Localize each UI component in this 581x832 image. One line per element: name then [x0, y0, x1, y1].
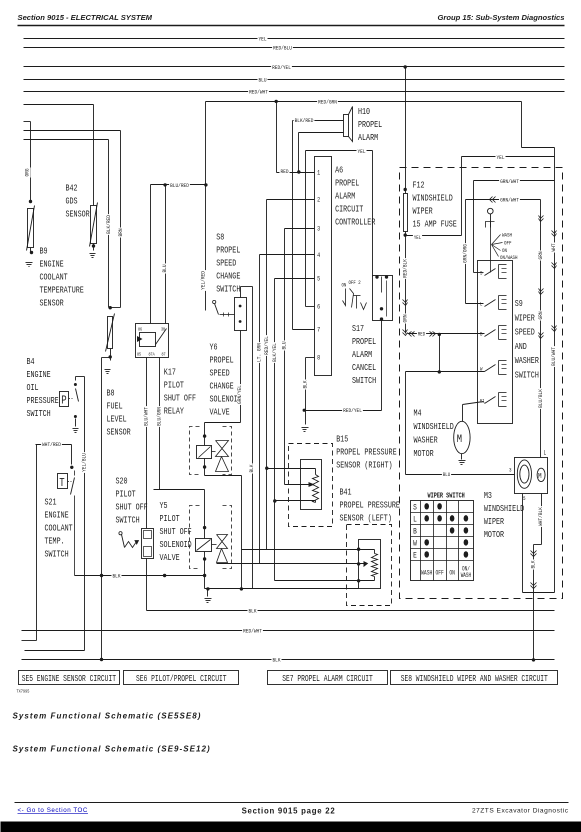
svg-text:5: 5 [317, 275, 320, 283]
svg-text:SWITCH: SWITCH [216, 285, 240, 295]
svg-text:PROPEL: PROPEL [358, 120, 382, 130]
svg-text:System Functional Schematic (S: System Functional Schematic (SE5SE8) [13, 712, 202, 721]
svg-text:BLK/YEL: BLK/YEL [271, 343, 278, 362]
svg-text:WHT/RED: WHT/RED [42, 442, 61, 449]
svg-text:87: 87 [162, 353, 167, 358]
svg-text:B42: B42 [66, 184, 78, 194]
svg-text:A6: A6 [335, 166, 343, 176]
svg-text:RED: RED [280, 169, 288, 176]
svg-text:SHUT OFF: SHUT OFF [164, 394, 196, 404]
svg-text:GDS: GDS [66, 197, 78, 207]
svg-text:BLK: BLK [248, 608, 257, 615]
svg-text:ALARM: ALARM [352, 350, 372, 360]
svg-text:K17: K17 [164, 368, 176, 378]
svg-text:RED/WHT: RED/WHT [249, 89, 268, 96]
svg-text:85: 85 [137, 353, 142, 358]
svg-text:YEL: YEL [258, 36, 266, 43]
svg-text:ALARM: ALARM [335, 192, 355, 202]
svg-text:BLU: BLU [162, 264, 169, 272]
svg-text:15 AMP FUSE: 15 AMP FUSE [413, 220, 457, 230]
svg-text:B: B [480, 331, 482, 338]
svg-text:MOTOR: MOTOR [414, 449, 434, 459]
svg-text:S: S [413, 504, 417, 513]
svg-text:BLK: BLK [302, 380, 309, 389]
svg-text:SPEED: SPEED [210, 369, 230, 379]
svg-text:WIPER SWITCH: WIPER SWITCH [428, 492, 465, 500]
svg-text:LEVEL: LEVEL [107, 415, 127, 425]
svg-text:L: L [480, 301, 482, 308]
svg-text:B9: B9 [40, 247, 48, 257]
svg-text:TEMPERATURE: TEMPERATURE [40, 286, 84, 296]
svg-text:SPEED: SPEED [515, 328, 535, 338]
svg-text:BLK/RED: BLK/RED [295, 118, 314, 125]
svg-text:5: 5 [523, 495, 526, 502]
svg-text:RED/BLU: RED/BLU [273, 45, 292, 52]
svg-text:SWITCH: SWITCH [515, 371, 539, 381]
svg-text:VALVE: VALVE [160, 553, 180, 563]
svg-text:B8: B8 [107, 389, 115, 399]
svg-text:BRN: BRN [118, 228, 125, 236]
svg-text:BLK: BLK [249, 464, 256, 473]
svg-text:SE8 WINDSHIELD WIPER AND WASHE: SE8 WINDSHIELD WIPER AND WASHER CIRCUIT [401, 675, 548, 684]
svg-text:BLU: BLU [443, 472, 450, 479]
svg-text:OFF 2: OFF 2 [349, 279, 361, 286]
svg-text:PROPEL: PROPEL [335, 179, 359, 189]
svg-text:WIPER: WIPER [413, 207, 433, 217]
svg-text:YEL/RED: YEL/RED [200, 271, 207, 290]
svg-text:OIL: OIL [27, 383, 39, 393]
svg-text:86: 86 [138, 328, 143, 333]
svg-text:7: 7 [317, 326, 320, 334]
svg-text:WINDSHIELD: WINDSHIELD [413, 194, 453, 204]
svg-text:SWITCH: SWITCH [45, 550, 69, 560]
svg-text:RELAY: RELAY [164, 407, 184, 417]
svg-text:ENGINE: ENGINE [40, 260, 64, 270]
svg-text:RED/YEL: RED/YEL [263, 336, 270, 355]
svg-text:BLU: BLU [258, 77, 266, 84]
svg-text:SE5 ENGINE SENSOR CIRCUIT: SE5 ENGINE SENSOR CIRCUIT [22, 675, 117, 684]
svg-text:TEMP.: TEMP. [45, 537, 65, 547]
svg-text:WASH: WASH [421, 569, 432, 577]
svg-text:BLU: BLU [281, 341, 288, 349]
svg-text:SHUT OFF: SHUT OFF [160, 527, 192, 537]
svg-text:RED/YEL: RED/YEL [272, 65, 291, 72]
svg-text:SENSOR (RIGHT): SENSOR (RIGHT) [336, 461, 392, 471]
svg-text:WIPER: WIPER [515, 313, 535, 323]
svg-text:S20: S20 [116, 477, 128, 487]
svg-text:SWITCH: SWITCH [116, 516, 140, 526]
svg-text:OFF: OFF [435, 569, 444, 577]
svg-text:CHANGE: CHANGE [216, 272, 240, 282]
svg-text:S: S [480, 270, 482, 277]
svg-text:PILOT: PILOT [160, 514, 180, 524]
svg-text:PILOT: PILOT [116, 490, 136, 500]
svg-text:WASH: WASH [461, 572, 471, 579]
svg-text:E: E [413, 552, 417, 561]
svg-text:COOLANT: COOLANT [40, 273, 68, 283]
svg-text:27ZTS Excavator Diagnostic: 27ZTS Excavator Diagnostic [472, 808, 569, 815]
svg-text:SENSOR: SENSOR [40, 299, 64, 309]
svg-text:RED: RED [418, 331, 425, 338]
svg-text:Section 9015 page 22: Section 9015 page 22 [242, 807, 336, 816]
svg-text:Section 9015 - ELECTRICAL SYST: Section 9015 - ELECTRICAL SYSTEM [18, 13, 153, 22]
svg-text:B4: B4 [27, 357, 35, 367]
svg-text:F12: F12 [413, 181, 425, 191]
svg-text:ENGINE: ENGINE [27, 370, 51, 380]
svg-text:GRN/ORG: GRN/ORG [462, 244, 469, 263]
svg-text:TX7995: TX7995 [17, 689, 30, 695]
svg-text:L: L [413, 516, 417, 525]
svg-text:ON: ON [502, 247, 507, 254]
svg-text:PILOT: PILOT [164, 381, 184, 391]
svg-text:GRN: GRN [538, 311, 545, 319]
svg-text:COOLANT: COOLANT [45, 524, 73, 534]
svg-text:BLK/RED: BLK/RED [106, 215, 113, 234]
svg-text:YEL/BLU: YEL/BLU [81, 453, 88, 472]
svg-text:Y6: Y6 [210, 343, 218, 353]
svg-text:P: P [61, 394, 66, 408]
svg-text:B41: B41 [340, 488, 352, 498]
svg-text:RED/YEL: RED/YEL [343, 408, 362, 415]
svg-text:CANCEL: CANCEL [352, 363, 376, 373]
svg-text:PROPEL: PROPEL [210, 356, 234, 366]
svg-text:M: M [538, 473, 542, 482]
svg-text:M4: M4 [414, 409, 422, 419]
svg-text:OFF: OFF [504, 240, 512, 247]
svg-text:BLK: BLK [112, 573, 121, 580]
svg-text:SOLENOID: SOLENOID [160, 540, 192, 550]
svg-text:3: 3 [509, 467, 512, 474]
svg-text:ORG: ORG [24, 168, 31, 176]
svg-text:WIPER: WIPER [484, 517, 504, 527]
svg-text:B: B [413, 528, 417, 537]
svg-text:SENSOR (LEFT): SENSOR (LEFT) [340, 514, 392, 524]
svg-text:6: 6 [317, 303, 320, 311]
svg-text:M3: M3 [484, 491, 492, 501]
svg-text:Y5: Y5 [160, 501, 168, 511]
svg-text:BLK: BLK [272, 657, 281, 664]
svg-text:RED/WHT: RED/WHT [243, 628, 262, 635]
svg-text:GRN: GRN [538, 251, 545, 259]
svg-text:BLU/WHT: BLU/WHT [551, 347, 558, 366]
svg-text:CONTROLLER: CONTROLLER [335, 218, 375, 228]
svg-text:GRN/WHT: GRN/WHT [500, 197, 519, 204]
svg-text:WASHER: WASHER [515, 356, 539, 366]
svg-text:E1: E1 [480, 398, 485, 405]
svg-text:System Functional Schematic (S: System Functional Schematic (SE9-SE12) [13, 745, 211, 754]
svg-text:GRN: GRN [402, 314, 409, 322]
svg-text:PROPEL: PROPEL [216, 246, 240, 256]
svg-text:30: 30 [161, 328, 166, 333]
svg-text:ON: ON [342, 282, 347, 289]
svg-text:L: L [544, 450, 547, 457]
svg-text:PRESSURE: PRESSURE [27, 396, 59, 406]
svg-text:B15: B15 [336, 435, 348, 445]
svg-text:CIRCUIT: CIRCUIT [335, 205, 363, 215]
svg-text:WASHER: WASHER [414, 436, 438, 446]
svg-text:1: 1 [317, 169, 320, 177]
svg-text:WINDSHIELD: WINDSHIELD [484, 504, 524, 514]
svg-text:BLU/BLK: BLU/BLK [538, 388, 545, 408]
svg-text:8: 8 [317, 354, 320, 362]
svg-text:PROPEL PRESSURE: PROPEL PRESSURE [340, 501, 401, 511]
svg-text:BLU/RED: BLU/RED [170, 182, 189, 189]
svg-text:GRN/WHT: GRN/WHT [500, 179, 519, 186]
svg-text:SPEED: SPEED [216, 259, 236, 269]
svg-text:BLU/WHT: BLU/WHT [143, 407, 150, 426]
svg-text:BLK: BLK [530, 560, 537, 569]
svg-text:ALARM: ALARM [358, 133, 378, 143]
svg-text:4: 4 [317, 251, 320, 259]
svg-text:SE6 PILOT/PROPEL CIRCUIT: SE6 PILOT/PROPEL CIRCUIT [136, 675, 227, 684]
svg-text:WASH: WASH [502, 232, 512, 239]
svg-text:3: 3 [317, 225, 320, 233]
svg-text:M: M [457, 433, 462, 445]
svg-text:S9: S9 [515, 299, 523, 309]
svg-text:VALVE: VALVE [210, 408, 230, 418]
svg-text:PROPEL PRESSURE: PROPEL PRESSURE [336, 448, 397, 458]
svg-text:H10: H10 [358, 107, 370, 117]
svg-text:SENSOR: SENSOR [107, 428, 131, 438]
svg-text:SHUT OFF: SHUT OFF [116, 503, 148, 513]
svg-text:SE7 PROPEL ALARM CIRCUIT: SE7 PROPEL ALARM CIRCUIT [282, 675, 373, 684]
svg-text:GRN/YEL: GRN/YEL [237, 385, 244, 404]
svg-text:WHT: WHT [551, 243, 558, 251]
svg-text:2: 2 [317, 196, 320, 204]
svg-text:S17: S17 [352, 324, 364, 334]
svg-text:S8: S8 [216, 233, 224, 243]
svg-text:AND: AND [515, 342, 527, 352]
svg-text:CHANGE: CHANGE [210, 382, 234, 392]
svg-text:WHT/BLK: WHT/BLK [538, 506, 545, 526]
svg-text:W: W [413, 540, 417, 549]
svg-text:MOTOR: MOTOR [484, 530, 504, 540]
svg-text:RED/BLK: RED/BLK [402, 258, 409, 278]
svg-text:ENGINE: ENGINE [45, 511, 69, 521]
svg-text:Group 15: Sub-System Diagnosti: Group 15: Sub-System Diagnostics [437, 13, 564, 22]
svg-text:YEL: YEL [496, 154, 504, 161]
svg-text:SWITCH: SWITCH [352, 376, 376, 386]
svg-text:T: T [59, 477, 64, 491]
svg-text:SWITCH: SWITCH [27, 409, 51, 419]
svg-text:YEL: YEL [414, 235, 421, 242]
svg-text:<- Go to Section TOC: <- Go to Section TOC [18, 807, 88, 814]
svg-text:PROPEL: PROPEL [352, 337, 376, 347]
svg-text:BLU/GRN: BLU/GRN [156, 407, 163, 426]
svg-text:FUEL: FUEL [107, 402, 123, 412]
svg-text:ON: ON [449, 569, 455, 577]
svg-text:WINDSHIELD: WINDSHIELD [414, 422, 454, 432]
svg-text:LT. GRN: LT. GRN [256, 343, 263, 362]
svg-text:SENSOR: SENSOR [66, 210, 90, 220]
svg-text:YEL: YEL [357, 149, 365, 156]
svg-text:S21: S21 [45, 498, 57, 508]
svg-text:RED/GRN: RED/GRN [318, 99, 337, 106]
svg-text:87A: 87A [149, 353, 156, 358]
